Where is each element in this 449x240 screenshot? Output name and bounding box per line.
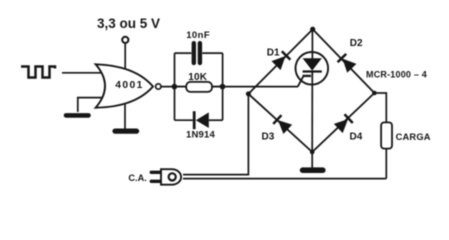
svg-text:10K: 10K <box>188 72 208 83</box>
svg-text:D4: D4 <box>350 132 363 143</box>
svg-text:4001: 4001 <box>115 80 144 91</box>
svg-text:D1: D1 <box>267 48 280 59</box>
svg-text:3,3 ou 5 V: 3,3 ou 5 V <box>97 16 160 31</box>
svg-text:10nF: 10nF <box>186 30 210 41</box>
svg-text:D3: D3 <box>262 132 275 143</box>
svg-text:D2: D2 <box>350 38 363 49</box>
svg-text:MCR-1000 – 4: MCR-1000 – 4 <box>366 69 427 79</box>
svg-text:C.A.: C.A. <box>128 173 146 183</box>
svg-text:CARGA: CARGA <box>396 132 431 142</box>
svg-text:1N914: 1N914 <box>186 129 216 140</box>
